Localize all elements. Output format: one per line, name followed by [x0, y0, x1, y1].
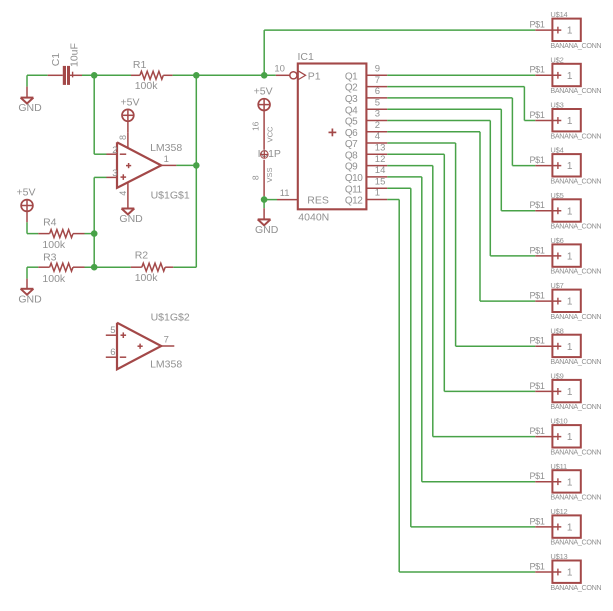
- svg-text:Q2: Q2: [345, 83, 358, 94]
- svg-text:1: 1: [567, 297, 573, 308]
- svg-text:LM358: LM358: [150, 142, 182, 154]
- svg-text:2: 2: [112, 145, 117, 156]
- svg-text:+5V: +5V: [17, 187, 36, 199]
- wire Q10 to connector: [387, 177, 535, 482]
- connector U$8 banana: [529, 326, 601, 366]
- svg-text:P$1: P$1: [529, 471, 544, 481]
- ground GND3 opamp: [119, 209, 143, 226]
- svg-text:7: 7: [164, 334, 169, 345]
- svg-text:3: 3: [112, 168, 117, 179]
- svg-text:VSS: VSS: [265, 167, 274, 182]
- wire inverting input: [94, 75, 106, 154]
- svg-text:6: 6: [375, 86, 380, 97]
- pin 7 label: [164, 334, 169, 345]
- svg-text:GND: GND: [119, 213, 143, 225]
- pin Q3: [345, 86, 387, 105]
- ic value plus: [329, 129, 337, 137]
- node junction RES/GND: [261, 196, 268, 203]
- svg-text:1: 1: [164, 154, 169, 165]
- resistor R4: [38, 217, 84, 252]
- svg-text:BANANA_CONN: BANANA_CONN: [550, 357, 601, 366]
- svg-text:P$1: P$1: [529, 336, 544, 346]
- power +5V IC1P: [254, 86, 273, 122]
- resistor R2: [131, 249, 173, 284]
- svg-text:BANANA_CONN: BANANA_CONN: [550, 41, 601, 50]
- resistor R1: [131, 59, 173, 92]
- svg-text:U$1G$2: U$1G$2: [151, 312, 190, 324]
- svg-text:C1: C1: [50, 53, 62, 67]
- wire net N$1 top rail: [27, 74, 48, 76]
- label U$1G$1: [151, 190, 190, 202]
- svg-text:100k: 100k: [42, 273, 66, 285]
- svg-text:BANANA_CONN: BANANA_CONN: [550, 493, 601, 502]
- pin Q1: [345, 64, 387, 83]
- wire: [27, 222, 38, 233]
- svg-text:100k: 100k: [135, 80, 159, 92]
- pin Q11: [345, 176, 387, 195]
- wire: [173, 74, 276, 76]
- wire: [82, 74, 131, 76]
- svg-text:R1: R1: [133, 59, 147, 71]
- svg-text:GND: GND: [18, 102, 42, 114]
- ic IC1 4040N box: [298, 64, 367, 210]
- wire Q6 to connector: [387, 132, 535, 301]
- op-amp U1G2 LM358: [106, 323, 175, 370]
- ground GND4 IC: [255, 208, 279, 236]
- svg-text:11: 11: [280, 188, 290, 199]
- label 4040N: [298, 212, 329, 224]
- pin Q5: [345, 109, 387, 128]
- svg-text:P$1: P$1: [529, 426, 544, 436]
- connector U$14 banana: [529, 10, 601, 50]
- svg-text:Q4: Q4: [345, 105, 358, 116]
- svg-text:+5V: +5V: [121, 96, 140, 108]
- svg-text:BANANA_CONN: BANANA_CONN: [550, 176, 601, 185]
- supply gate IC1P: [250, 121, 281, 196]
- svg-text:BANANA_CONN: BANANA_CONN: [550, 312, 601, 321]
- pin Q4: [345, 97, 387, 116]
- connector U$5 banana: [529, 191, 601, 231]
- svg-text:8: 8: [118, 135, 128, 140]
- connector U$6 banana: [529, 236, 601, 276]
- svg-text:BANANA_CONN: BANANA_CONN: [550, 131, 601, 140]
- svg-text:P$1: P$1: [529, 65, 544, 75]
- svg-text:Q10: Q10: [345, 173, 363, 184]
- svg-text:GND: GND: [18, 293, 42, 305]
- pin P1 clock input: [276, 70, 321, 82]
- svg-text:BANANA_CONN: BANANA_CONN: [550, 583, 601, 592]
- capacitor C1: [48, 43, 82, 85]
- label LM358 gate2: [150, 359, 182, 371]
- wire: [27, 267, 38, 278]
- svg-text:U$1G$1: U$1G$1: [151, 190, 190, 202]
- svg-text:P$1: P$1: [529, 110, 544, 120]
- svg-text:+5V: +5V: [254, 86, 273, 98]
- pin 8 label: [118, 135, 128, 140]
- op-amp U1G1 LM358: [106, 132, 176, 208]
- svg-text:BANANA_CONN: BANANA_CONN: [550, 538, 601, 547]
- svg-text:VCC: VCC: [266, 126, 275, 142]
- svg-text:1: 1: [567, 26, 573, 37]
- svg-text:6: 6: [110, 347, 115, 358]
- ground GND2: [18, 279, 42, 306]
- pin Q9: [345, 154, 387, 173]
- wire clock net up: [264, 30, 535, 75]
- resistor R3: [38, 251, 84, 285]
- pin Q12: [345, 188, 387, 207]
- svg-text:BANANA_CONN: BANANA_CONN: [550, 86, 601, 95]
- pin Q10: [345, 165, 387, 184]
- svg-text:1: 1: [567, 116, 573, 127]
- wire Q5 to connector: [387, 121, 535, 256]
- svg-text:R4: R4: [43, 217, 57, 229]
- connector U$10 banana: [529, 417, 601, 457]
- svg-text:100k: 100k: [42, 239, 66, 251]
- svg-text:1: 1: [567, 71, 573, 82]
- pin 1 label: [164, 154, 169, 165]
- svg-text:P$1: P$1: [529, 561, 544, 571]
- svg-text:BANANA_CONN: BANANA_CONN: [550, 447, 601, 456]
- svg-text:Q1: Q1: [345, 71, 358, 82]
- connector U$13 banana: [529, 552, 601, 592]
- pin Q6: [345, 120, 387, 139]
- wire non-inverting input: [94, 177, 106, 267]
- connector U$12 banana: [529, 507, 601, 547]
- wire: [85, 233, 95, 235]
- connector U$4 banana: [529, 146, 601, 186]
- power +5V opamp: [121, 96, 140, 132]
- wire: [264, 196, 277, 208]
- svg-text:Q6: Q6: [345, 128, 358, 139]
- label U$1G$2: [151, 312, 190, 324]
- svg-text:1: 1: [567, 568, 573, 579]
- pin 11 label: [280, 188, 290, 199]
- svg-text:P$1: P$1: [529, 291, 544, 301]
- wire Q11 to connector: [387, 188, 535, 527]
- svg-text:P$1: P$1: [529, 20, 544, 30]
- svg-text:1: 1: [567, 477, 573, 488]
- svg-text:7: 7: [375, 75, 380, 86]
- power +5V left: [17, 187, 36, 223]
- pin 4 label: [118, 191, 128, 196]
- svg-text:1: 1: [375, 188, 380, 199]
- node junction output/feedback: [193, 162, 200, 169]
- connector U$9 banana: [529, 372, 601, 412]
- wire: [85, 266, 131, 268]
- svg-text:1: 1: [567, 342, 573, 353]
- svg-text:1: 1: [567, 206, 573, 217]
- connector U$2 banana: [529, 55, 601, 95]
- wire Q8 to connector: [387, 154, 535, 391]
- node junction R3/R2: [91, 264, 98, 271]
- wire feedback vertical: [173, 75, 196, 267]
- svg-text:15: 15: [375, 176, 386, 187]
- svg-text:P1: P1: [308, 70, 321, 82]
- svg-text:P$1: P$1: [529, 245, 544, 255]
- svg-text:P$1: P$1: [529, 200, 544, 210]
- svg-text:GND: GND: [255, 224, 279, 236]
- pin Q8: [345, 143, 387, 162]
- connector U$3 banana: [529, 101, 601, 141]
- pin 6 label: [110, 347, 115, 358]
- svg-text:BANANA_CONN: BANANA_CONN: [550, 267, 601, 276]
- connector U$7 banana: [529, 281, 601, 321]
- svg-text:BANANA_CONN: BANANA_CONN: [550, 402, 601, 411]
- svg-text:4040N: 4040N: [298, 212, 329, 224]
- svg-text:BANANA_CONN: BANANA_CONN: [550, 222, 601, 231]
- wire Q9 to connector: [387, 166, 535, 437]
- wire Q3 to connector: [387, 98, 535, 166]
- wire Q1 to U$2: [387, 74, 535, 76]
- svg-text:R2: R2: [135, 249, 149, 261]
- svg-text:LM358: LM358: [150, 359, 182, 371]
- svg-text:14: 14: [375, 165, 386, 176]
- svg-text:Q8: Q8: [345, 150, 358, 161]
- svg-text:10uF: 10uF: [69, 43, 81, 67]
- svg-text:16: 16: [250, 121, 260, 131]
- svg-text:Q12: Q12: [345, 196, 363, 207]
- svg-text:Q7: Q7: [345, 139, 358, 150]
- pin RES input: [277, 195, 329, 207]
- connector U$11 banana: [529, 462, 601, 502]
- svg-text:4: 4: [375, 131, 380, 142]
- ground GND1: [18, 75, 42, 114]
- svg-text:P$1: P$1: [529, 381, 544, 391]
- pin Q7: [345, 131, 387, 150]
- svg-text:9: 9: [375, 64, 380, 75]
- svg-text:Q9: Q9: [345, 162, 358, 173]
- svg-text:1: 1: [567, 387, 573, 398]
- wire Q4 to connector: [387, 109, 535, 211]
- label LM358 gate1: [150, 142, 182, 154]
- svg-text:5: 5: [110, 325, 115, 336]
- svg-text:1: 1: [567, 432, 573, 443]
- svg-text:IC1: IC1: [298, 51, 315, 63]
- svg-text:Q5: Q5: [345, 117, 358, 128]
- svg-text:8: 8: [251, 175, 261, 180]
- svg-text:4: 4: [118, 191, 128, 196]
- label IC1: [298, 51, 315, 63]
- svg-text:Q3: Q3: [345, 94, 358, 105]
- svg-text:1: 1: [567, 252, 573, 263]
- wire Q2 to connector: [387, 87, 535, 121]
- wire output: [176, 164, 196, 166]
- svg-text:100k: 100k: [135, 272, 159, 284]
- svg-text:Q11: Q11: [345, 184, 363, 195]
- node junction R4: [91, 230, 98, 237]
- svg-text:1: 1: [567, 161, 573, 172]
- svg-text:P$1: P$1: [529, 155, 544, 165]
- pin 3 label: [112, 168, 117, 179]
- wire Q12 to connector: [387, 200, 535, 573]
- node junction clock branch: [261, 72, 268, 79]
- svg-text:13: 13: [375, 143, 386, 154]
- svg-text:5: 5: [375, 97, 380, 108]
- svg-text:10: 10: [274, 64, 285, 75]
- svg-text:R3: R3: [43, 251, 57, 263]
- pin Q2: [345, 75, 387, 94]
- pin 2 label: [112, 145, 117, 156]
- node junction R1/output: [193, 72, 200, 79]
- svg-text:P$1: P$1: [529, 516, 544, 526]
- svg-text:2: 2: [375, 120, 380, 131]
- node junction C1/R1: [91, 72, 98, 79]
- pin 10 label: [274, 64, 285, 75]
- wire Q7 to connector: [387, 143, 535, 346]
- svg-text:12: 12: [375, 154, 386, 165]
- pin 5 label: [110, 325, 115, 336]
- svg-text:3: 3: [375, 109, 380, 120]
- svg-text:RES: RES: [307, 195, 329, 207]
- svg-text:1: 1: [567, 523, 573, 534]
